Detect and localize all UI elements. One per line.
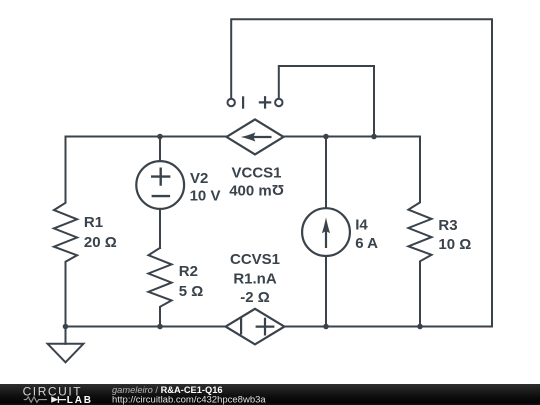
VCCS1 arrow head bbox=[241, 132, 256, 141]
I4 arrow head bbox=[322, 217, 330, 233]
svg-text:R3: R3 bbox=[438, 217, 457, 234]
svg-text:-2 Ω: -2 Ω bbox=[240, 289, 270, 306]
svg-text:10 Ω: 10 Ω bbox=[438, 236, 471, 253]
current source I4 body bbox=[302, 208, 350, 256]
svg-text:R2: R2 bbox=[179, 263, 198, 280]
junction node I4 bottom bbox=[323, 324, 329, 330]
CCVS1 minus bar bbox=[240, 319, 242, 333]
control plus label bbox=[260, 97, 270, 107]
wire V2 to R2 bbox=[159, 204, 161, 248]
wire VCCS1 control loop (left terminal to right side) bbox=[231, 19, 492, 326]
svg-text:10 V: 10 V bbox=[190, 187, 221, 204]
voltage source V2 body bbox=[136, 161, 184, 209]
wire I4 top lead bbox=[325, 137, 327, 213]
I4 arrow bbox=[325, 229, 327, 247]
junction node R3 bottom bbox=[417, 324, 423, 330]
resistor R2 bbox=[148, 248, 171, 327]
wire I4 bottom lead bbox=[325, 252, 327, 327]
svg-text:6 A: 6 A bbox=[355, 235, 378, 252]
svg-text:VCCS1: VCCS1 bbox=[231, 165, 281, 182]
svg-text:CCVS1: CCVS1 bbox=[230, 251, 280, 268]
VCCS1 arrow shaft bbox=[252, 136, 270, 138]
wire VCCS1 control loop (right terminal to top bus) bbox=[279, 66, 374, 137]
VCCS1 control terminal right (positive) bbox=[275, 99, 282, 106]
junction node V2 top bbox=[157, 134, 163, 140]
footer bar bbox=[0, 384, 540, 405]
dependent source CCVS1 diamond bbox=[226, 309, 285, 345]
junction node R2 bottom bbox=[157, 324, 163, 330]
V2 minus sign bbox=[153, 195, 169, 197]
junction node I4 top bbox=[323, 134, 329, 140]
dependent source VCCS1 diamond bbox=[227, 119, 284, 154]
svg-text:LAB: LAB bbox=[67, 395, 93, 405]
svg-text:R1.nA: R1.nA bbox=[233, 270, 277, 287]
ground symbol bbox=[48, 344, 84, 363]
junction node ground bbox=[63, 324, 69, 330]
svg-text:R1: R1 bbox=[84, 214, 103, 231]
control minus bar label bbox=[242, 97, 244, 107]
footer logo resistor squiggle and diode bbox=[24, 397, 47, 402]
junction node control loop top bus bbox=[371, 134, 377, 140]
svg-text:V2: V2 bbox=[190, 170, 208, 187]
VCCS1 control terminal left (negative) bbox=[228, 99, 235, 106]
wire top bus node bbox=[66, 136, 421, 138]
svg-text:5 Ω: 5 Ω bbox=[179, 283, 204, 300]
wire V2 top lead bbox=[159, 137, 161, 167]
CCVS1 plus sign bbox=[257, 319, 274, 335]
resistor R1 bbox=[54, 137, 77, 327]
svg-text:20 Ω: 20 Ω bbox=[84, 234, 117, 251]
V2 plus sign bbox=[152, 169, 169, 185]
svg-text:400 m: 400 m bbox=[229, 182, 272, 199]
ground lead bbox=[65, 327, 67, 344]
resistor R3 bbox=[408, 137, 431, 327]
svg-text:http://circuitlab.com/c432hpce: http://circuitlab.com/c432hpce8wb3a bbox=[112, 394, 266, 405]
svg-text:Ω: Ω bbox=[272, 181, 284, 198]
wire bottom bus node bbox=[66, 326, 493, 328]
svg-text:I4: I4 bbox=[355, 216, 368, 233]
